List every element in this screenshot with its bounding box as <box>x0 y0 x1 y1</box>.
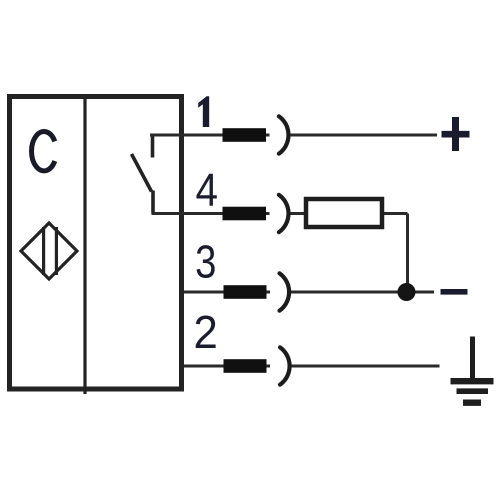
svg-text:4: 4 <box>195 165 218 216</box>
svg-text:3: 3 <box>195 236 216 287</box>
svg-text:2: 2 <box>194 306 218 358</box>
